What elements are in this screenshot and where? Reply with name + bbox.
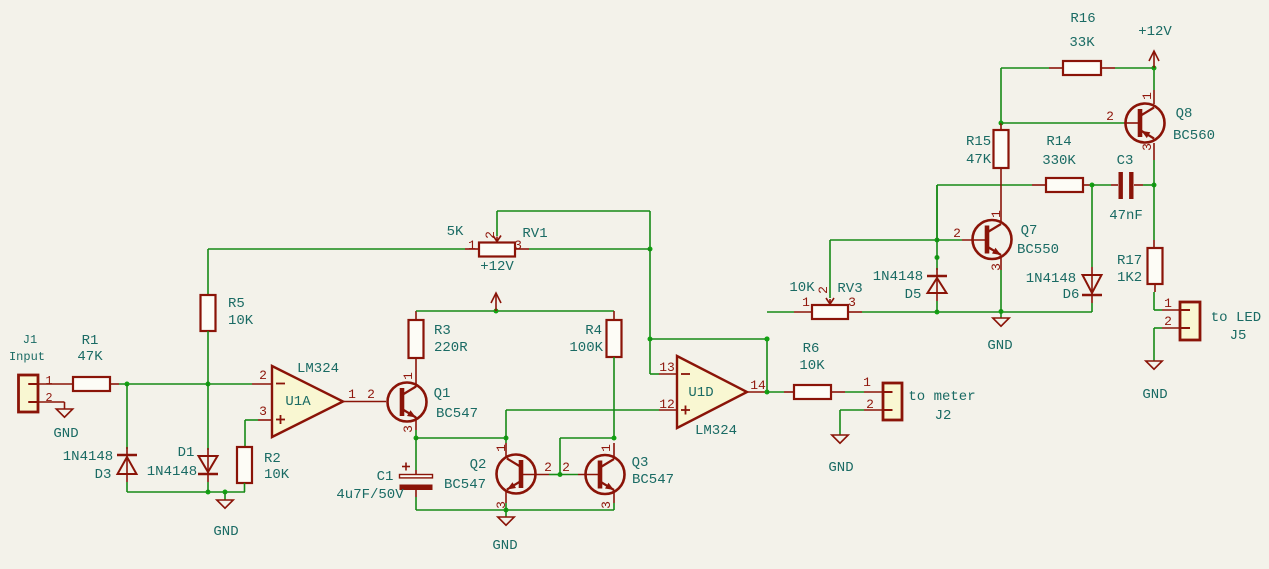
- ground under J5: [1146, 361, 1162, 369]
- wire output to R6: [767, 391, 784, 393]
- wire D6 top: [1091, 185, 1093, 267]
- ground at J2: [832, 435, 848, 443]
- svg-text:GND: GND: [987, 338, 1012, 354]
- svg-text:1N4148: 1N4148: [873, 269, 923, 285]
- svg-text:R6: R6: [803, 341, 820, 357]
- svg-text:BC560: BC560: [1173, 128, 1215, 144]
- wire R14 left: [937, 184, 1032, 186]
- wire R2 bottom: [244, 483, 246, 492]
- wire U1A pin3 to R2: [245, 419, 258, 421]
- svg-text:3: 3: [259, 404, 267, 419]
- wire R16 right: [1115, 67, 1154, 69]
- wire R5 top: [207, 249, 209, 295]
- svg-text:D1: D1: [178, 445, 195, 461]
- capacitor C1: [400, 475, 433, 491]
- node +12V top right: [1152, 66, 1157, 71]
- wire D5 anode: [936, 301, 938, 312]
- pin R14 left: [1032, 184, 1046, 186]
- pin C1 bottom: [415, 490, 417, 497]
- wire pin12 drop to Q2 collector: [505, 410, 507, 443]
- svg-text:R15: R15: [966, 134, 991, 150]
- wire D1 to bottom rail: [207, 482, 209, 492]
- wire C1 bottom: [415, 497, 417, 510]
- svg-text:3: 3: [401, 425, 416, 433]
- wire Q2 base: [521, 474, 549, 476]
- pin 1 of J2: [864, 391, 883, 393]
- svg-text:LM324: LM324: [297, 361, 339, 377]
- ground at J1: [56, 409, 72, 417]
- resistor R16: [1063, 61, 1101, 75]
- node Q8 emitter column: [1152, 183, 1157, 188]
- resistor R3: [409, 320, 424, 358]
- pin 2 of J2: [864, 409, 883, 411]
- wire R6 to J2: [845, 391, 864, 393]
- pin R4 top: [613, 311, 615, 320]
- connector J5: [1180, 302, 1200, 340]
- pin 1 of RV1: [465, 248, 479, 250]
- node +12V mid: [494, 309, 499, 314]
- svg-text:GND: GND: [53, 426, 78, 442]
- wire R4 bottom to node: [613, 357, 615, 438]
- wire Q8 base: [1001, 122, 1124, 124]
- power +12V mid: [495, 294, 497, 311]
- wire Q2 collector pin: [505, 443, 507, 458]
- wire ground stub under Q2: [505, 510, 507, 517]
- wire RV1 wiper up: [496, 211, 498, 236]
- svg-text:GND: GND: [1142, 387, 1167, 403]
- diode D5: [927, 275, 947, 278]
- wire ground stub: [224, 492, 226, 500]
- ground at bottom-left rail: [217, 500, 233, 508]
- wire D5 column mid: [936, 240, 938, 270]
- pin R14 right: [1083, 184, 1092, 186]
- svg-text:2: 2: [45, 391, 52, 405]
- wire C3 to Q8 emitter column: [1143, 184, 1154, 186]
- svg-text:1K2: 1K2: [1117, 270, 1142, 286]
- resistor R6: [794, 385, 831, 399]
- wire main input net: [119, 383, 252, 385]
- wire down to D1: [207, 384, 209, 450]
- wire RV3 pin3 rail: [862, 311, 1092, 313]
- node U1D feedback left: [648, 337, 653, 342]
- wire R16 left down: [1000, 68, 1002, 122]
- svg-text:Q3: Q3: [632, 455, 649, 471]
- connector J1: [19, 375, 39, 412]
- svg-text:10K: 10K: [799, 358, 825, 374]
- svg-text:BC547: BC547: [436, 406, 478, 422]
- svg-text:2: 2: [953, 226, 961, 241]
- op-amp U1D: [677, 356, 747, 428]
- wire feedback down to output: [766, 339, 768, 392]
- pin of R1 right: [110, 383, 119, 385]
- node ground tap: [223, 490, 228, 495]
- node Q7 base: [935, 238, 940, 243]
- pin 3 of U1A: [258, 419, 272, 421]
- node Q2 emitter ground: [504, 508, 509, 513]
- svg-text:1: 1: [45, 374, 52, 388]
- pin R3 top: [415, 311, 417, 320]
- wire J1 pin2 to ground: [38, 401, 65, 403]
- plus sign of C1: [402, 466, 410, 468]
- node U1D feedback right: [765, 337, 770, 342]
- svg-text:12: 12: [659, 397, 675, 412]
- wire Q2 emitter to rail: [505, 503, 507, 510]
- connector J2: [883, 383, 902, 420]
- wire Q1 emitter to node: [415, 430, 417, 438]
- resistor R5: [201, 295, 216, 331]
- svg-text:10K: 10K: [789, 280, 815, 296]
- ground under Q2: [498, 517, 514, 525]
- svg-text:1N4148: 1N4148: [1026, 271, 1076, 287]
- wire D6 bottom: [1091, 303, 1093, 312]
- svg-text:LM324: LM324: [695, 423, 737, 439]
- node D6 top: [1090, 183, 1095, 188]
- wire Q8 emitter down: [1153, 160, 1155, 185]
- wire base node top: [560, 437, 614, 439]
- potentiometer RV3: [812, 298, 848, 319]
- pin 1 of U1A and base pin of Q1: [343, 401, 386, 403]
- diode D3: [117, 454, 137, 457]
- wire J5 pin2 left: [1154, 327, 1162, 329]
- svg-text:4u7F/50V: 4u7F/50V: [336, 487, 404, 503]
- svg-text:1: 1: [468, 238, 476, 253]
- wire J1 pin1 to R1: [38, 383, 73, 385]
- pin 2 of U1A: [252, 383, 272, 385]
- svg-text:47K: 47K: [77, 349, 103, 365]
- svg-text:2: 2: [866, 397, 874, 412]
- wire Q1 emitter: [415, 417, 417, 430]
- svg-text:+12V: +12V: [1138, 24, 1172, 40]
- node base link: [558, 472, 563, 477]
- wire R14 to C3: [1092, 184, 1111, 186]
- svg-text:3: 3: [1140, 143, 1155, 151]
- svg-text:Q7: Q7: [1021, 223, 1038, 239]
- wire J2 pin2 left: [840, 409, 864, 411]
- svg-text:330K: 330K: [1042, 153, 1076, 169]
- node RV1 pin3: [648, 247, 653, 252]
- svg-text:2: 2: [562, 460, 570, 475]
- svg-text:1: 1: [1140, 92, 1155, 100]
- wire R15 bottom to Q7 collector: [1000, 168, 1002, 215]
- svg-text:GND: GND: [828, 460, 853, 476]
- svg-text:Input: Input: [9, 350, 45, 364]
- svg-text:220R: 220R: [434, 340, 468, 356]
- wire U1D feedback top: [650, 338, 767, 340]
- svg-text:BC547: BC547: [632, 472, 674, 488]
- transistor Q3: [586, 455, 625, 494]
- resistor R2: [237, 447, 252, 483]
- pin C3 left: [1111, 184, 1118, 186]
- wire R5 top rail: [208, 248, 465, 250]
- svg-text:C3: C3: [1117, 153, 1134, 169]
- svg-text:GND: GND: [213, 524, 238, 540]
- svg-text:Q2: Q2: [470, 457, 487, 473]
- node ground mid-right: [999, 309, 1004, 314]
- wire base node up: [559, 438, 561, 475]
- svg-text:R4: R4: [585, 323, 602, 339]
- svg-text:2: 2: [1164, 314, 1172, 329]
- svg-text:1: 1: [599, 444, 614, 452]
- pin 2 of Q8: [1124, 122, 1139, 124]
- node Q2 collector: [504, 436, 509, 441]
- svg-text:Q8: Q8: [1176, 106, 1193, 122]
- diode D1: [199, 456, 218, 472]
- svg-text:D6: D6: [1063, 287, 1080, 303]
- diode D6: [1083, 275, 1102, 293]
- wire R14 rail corner: [936, 185, 938, 240]
- svg-text:R17: R17: [1117, 253, 1142, 269]
- wire bottom rail mid: [416, 509, 614, 511]
- transistor Q7: [973, 220, 1012, 259]
- svg-text:2: 2: [259, 368, 267, 383]
- pin 1 of RV3: [794, 311, 812, 313]
- power +12V top right: [1153, 52, 1155, 68]
- wire Q2 base to node: [549, 474, 560, 476]
- wire D3 to bottom rail: [126, 482, 128, 492]
- wire Q7 base: [937, 239, 962, 241]
- node at R1 output: [125, 382, 130, 387]
- wire bottom-left rail: [127, 491, 245, 493]
- pin 14 of U1D: [747, 391, 765, 393]
- svg-text:1N4148: 1N4148: [147, 464, 197, 480]
- resistor R14: [1046, 178, 1083, 192]
- svg-text:R2: R2: [264, 451, 281, 467]
- svg-text:D3: D3: [95, 467, 112, 483]
- svg-text:13: 13: [659, 360, 675, 375]
- transistor Q1: [388, 383, 427, 422]
- pin R17 top: [1153, 240, 1155, 248]
- pin R16 left: [1049, 67, 1063, 69]
- wire Q2 emitter pin: [505, 490, 507, 503]
- svg-text:U1A: U1A: [285, 394, 311, 410]
- svg-text:J2: J2: [935, 408, 952, 424]
- wire RV3 wiper to Q7 base: [830, 239, 937, 241]
- wire R5 bottom: [207, 331, 209, 384]
- svg-text:C1: C1: [377, 469, 394, 485]
- pin 13 of U1D: [650, 373, 659, 375]
- svg-text:1: 1: [401, 372, 416, 380]
- wire RV3 pin1 net: [767, 311, 794, 313]
- wire Q3 base pin: [560, 474, 578, 476]
- wire Q8 emitter pin: [1153, 143, 1155, 160]
- node R4 / Q3 collector: [612, 436, 617, 441]
- svg-text:Q1: Q1: [434, 386, 451, 402]
- svg-text:R5: R5: [228, 296, 245, 312]
- wire node to Q2 collector node: [416, 437, 506, 439]
- wire J2 pin2 down: [839, 410, 841, 435]
- wire R17 to J5 corner: [1153, 292, 1155, 310]
- svg-text:D5: D5: [905, 287, 922, 303]
- svg-text:to LED: to LED: [1211, 310, 1261, 326]
- node Q1 emitter / C1: [414, 436, 419, 441]
- wire RV1 pin3 rail: [529, 248, 650, 250]
- svg-text:1: 1: [863, 375, 871, 390]
- svg-text:1: 1: [802, 295, 810, 310]
- wire Q7 emitter down: [1000, 270, 1002, 312]
- wire Q3 emitter pin: [613, 490, 615, 503]
- wire RV1 wiper top: [497, 210, 650, 212]
- svg-text:47K: 47K: [966, 152, 992, 168]
- svg-text:+12V: +12V: [480, 259, 514, 275]
- svg-text:J1: J1: [23, 333, 37, 347]
- pin C1 top: [415, 470, 417, 475]
- svg-text:R16: R16: [1070, 11, 1095, 27]
- node D1 bottom: [206, 490, 211, 495]
- resistor R15: [994, 130, 1009, 168]
- node below Q7 base: [935, 255, 940, 260]
- svg-text:R14: R14: [1046, 134, 1071, 150]
- wire D5 column upper: [936, 185, 938, 240]
- svg-text:R1: R1: [82, 333, 99, 349]
- resistor R4: [607, 320, 622, 357]
- pin 2 of J5: [1162, 327, 1180, 329]
- svg-text:10K: 10K: [264, 467, 290, 483]
- wire down to D3: [126, 384, 128, 449]
- svg-text:5K: 5K: [447, 224, 464, 240]
- wire Q8 collector pin: [1153, 90, 1155, 104]
- node RV3 pin1 corner: [765, 337, 770, 342]
- node U1D output: [765, 390, 770, 395]
- wire down to RV1 pin3 node: [649, 211, 651, 249]
- svg-text:3: 3: [514, 238, 522, 253]
- svg-text:10K: 10K: [228, 313, 254, 329]
- wire RV3 wiper up: [829, 240, 831, 298]
- svg-text:3: 3: [848, 295, 856, 310]
- svg-text:1: 1: [1164, 296, 1172, 311]
- svg-text:2: 2: [483, 231, 498, 239]
- svg-text:1N4148: 1N4148: [63, 449, 113, 465]
- wire pin12 net: [506, 409, 659, 411]
- svg-text:2: 2: [367, 387, 375, 402]
- svg-text:R3: R3: [434, 323, 451, 339]
- ground under Q7: [993, 318, 1009, 326]
- svg-text:BC547: BC547: [444, 477, 486, 493]
- svg-text:U1D: U1D: [688, 385, 713, 401]
- wire C3 node to R17: [1153, 185, 1155, 240]
- transistor Q8: [1126, 104, 1165, 143]
- svg-text:BC550: BC550: [1017, 242, 1059, 258]
- wire Q8 collector up: [1153, 68, 1155, 90]
- node Q8 base tap: [999, 121, 1004, 126]
- node at R5 bottom: [206, 382, 211, 387]
- wire +12V rail mid: [416, 310, 614, 312]
- wire Q1 collector to R3: [415, 358, 417, 387]
- pin R6 right: [831, 391, 845, 393]
- pin R6 left: [784, 391, 794, 393]
- wire C1 top: [415, 438, 417, 470]
- pin C3 right: [1134, 184, 1143, 186]
- pin R17 bottom: [1154, 284, 1156, 292]
- wire J5 pin2 down: [1153, 328, 1155, 361]
- svg-text:33K: 33K: [1069, 35, 1095, 51]
- wire Q7 emitter pin: [1000, 256, 1002, 270]
- wire corner to J5 pin1: [1154, 309, 1162, 311]
- potentiometer RV1: [479, 236, 515, 257]
- op-amp U1A: [272, 366, 343, 437]
- svg-text:47nF: 47nF: [1109, 208, 1143, 224]
- wire Q3 collector pin: [613, 443, 615, 459]
- pin R15 top: [1000, 123, 1002, 130]
- wire down to U1D: [649, 249, 651, 374]
- svg-text:GND: GND: [492, 538, 517, 554]
- svg-text:2: 2: [816, 286, 831, 294]
- wire R16 left: [1001, 67, 1049, 69]
- pin 3 of RV1: [515, 248, 529, 250]
- svg-text:14: 14: [750, 378, 766, 393]
- pin 12 of U1D: [659, 409, 677, 411]
- resistor R1: [73, 377, 110, 391]
- capacitor C3: [1119, 172, 1134, 199]
- svg-text:2: 2: [1106, 109, 1114, 124]
- pin 2 of Q7: [962, 239, 986, 241]
- svg-text:3: 3: [599, 501, 614, 509]
- wire ground stub Q7: [1000, 312, 1002, 318]
- wire R2 top: [244, 420, 246, 447]
- svg-text:J5: J5: [1230, 328, 1247, 344]
- svg-text:1: 1: [348, 387, 356, 402]
- svg-text:100K: 100K: [569, 340, 603, 356]
- svg-text:RV1: RV1: [522, 226, 547, 242]
- resistor R17: [1148, 248, 1163, 284]
- svg-text:to meter: to meter: [908, 389, 975, 405]
- wire Q3 emitter to rail: [613, 503, 615, 510]
- node D5 anode: [935, 310, 940, 315]
- transistor Q2: [497, 455, 536, 494]
- pin 1 of J5: [1162, 309, 1180, 311]
- wire Q7 collector pin: [1000, 215, 1002, 223]
- pin 3 of RV3: [848, 311, 862, 313]
- svg-text:2: 2: [544, 460, 552, 475]
- pin R16 right: [1101, 67, 1115, 69]
